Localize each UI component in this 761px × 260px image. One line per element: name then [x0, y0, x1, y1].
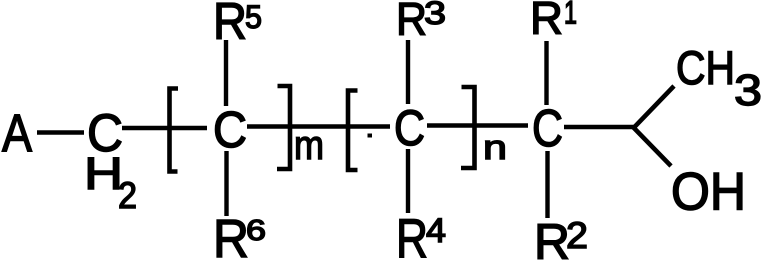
wire vertical bond up to R5: [224, 40, 228, 106]
svg-text:m: m: [294, 122, 324, 168]
svg-text:3: 3: [424, 0, 446, 31]
wire diagonal bond up to CH3: [633, 86, 674, 129]
wire vertical bond up to R3: [406, 40, 410, 104]
svg-text:1: 1: [564, 0, 577, 31]
right bracket of m repeat unit: [277, 86, 290, 169]
svg-text:A: A: [2, 104, 33, 163]
svg-text:C: C: [394, 100, 425, 156]
svg-text:OH: OH: [671, 163, 746, 222]
svg-text:CH: CH: [676, 41, 735, 94]
wire vertical bond down to R4: [406, 149, 410, 213]
stray dot artifact: [368, 134, 373, 138]
wire bond A to CH2: [37, 130, 84, 135]
wire bond C(R1R2) to CH(OH) vertex: [564, 125, 634, 129]
svg-text:R: R: [530, 0, 563, 44]
svg-text:2: 2: [566, 215, 588, 256]
right bracket of n repeat unit: [461, 87, 475, 168]
svg-text:R: R: [396, 207, 428, 260]
wire vertical bond down to R2: [545, 151, 549, 218]
wire bond C(n) through right bracket to C(R1R2): [427, 123, 528, 128]
svg-text:5: 5: [245, 0, 262, 35]
svg-text:R: R: [396, 0, 427, 45]
svg-text:3: 3: [734, 66, 761, 115]
left bracket of m repeat unit: [170, 89, 179, 172]
svg-text:C: C: [213, 101, 247, 158]
wire bond C(m) through right bracket and next left bracket to C(n): [247, 124, 390, 129]
wire vertical bond down to R6: [224, 151, 228, 216]
left bracket of n repeat unit: [348, 91, 358, 171]
svg-text:R: R: [534, 214, 570, 260]
svg-text:4: 4: [426, 212, 446, 250]
svg-text:C: C: [532, 100, 563, 158]
svg-text:n: n: [483, 129, 507, 167]
svg-text:6: 6: [246, 215, 266, 247]
wire diagonal bond down to OH: [633, 127, 671, 166]
wire bond CH2 through left bracket to C(R5R6): [122, 126, 207, 131]
wire vertical bond up to R1: [544, 41, 548, 105]
svg-text:2: 2: [118, 175, 137, 216]
svg-text:R: R: [213, 0, 247, 51]
svg-text:R: R: [213, 209, 249, 260]
